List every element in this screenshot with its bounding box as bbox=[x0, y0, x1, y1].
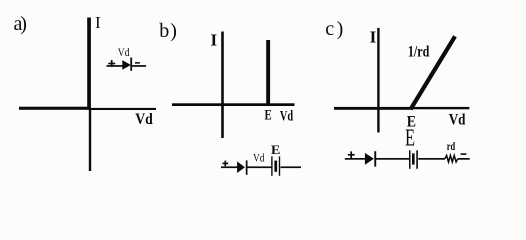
axis: I axis vertical line (part c) bbox=[377, 28, 379, 133]
battery E (part c circuit): right plate bbox=[416, 150, 418, 169]
battery E (part b circuit): middle thick plate bbox=[274, 161, 277, 172]
svg-text:E: E bbox=[405, 126, 415, 152]
svg-text:E: E bbox=[265, 108, 272, 124]
diode D (part b circuit): anode triangle bbox=[237, 161, 245, 173]
axis: negative I axis (part a) bbox=[89, 109, 91, 171]
diode D (part b circuit): cathode bar bbox=[246, 160, 248, 174]
wire: cathode lead of diode Vd (part a) bbox=[132, 65, 146, 67]
svg-text:1/rd: 1/rd bbox=[408, 44, 429, 61]
svg-text:c): c) bbox=[325, 18, 343, 40]
characteristic/axis: thick horizontal segment left of E (part c) bbox=[334, 107, 412, 110]
axis: positive Vd axis (part a) bbox=[91, 108, 156, 110]
characteristic: slope 1/rd line (part c) bbox=[411, 36, 456, 109]
ideal diode characteristic: thick horizontal segment I=0 for Vd&lt;0 (part a) bbox=[19, 107, 91, 110]
minus terminal (part c circuit) bbox=[461, 153, 467, 155]
svg-text:Vd: Vd bbox=[118, 47, 130, 59]
plus terminal (part c circuit) bbox=[348, 151, 355, 158]
svg-text:Vd: Vd bbox=[449, 111, 466, 128]
wire: battery to right end (part b circuit) bbox=[281, 166, 301, 168]
svg-text:rd: rd bbox=[447, 141, 456, 153]
svg-text:I: I bbox=[370, 27, 377, 46]
battery E (part b circuit): right plate bbox=[279, 156, 280, 175]
svg-text:I: I bbox=[95, 13, 101, 32]
plus terminal (part a) bbox=[108, 60, 115, 67]
svg-text:Vd: Vd bbox=[253, 151, 265, 165]
wire: battery to resistor (part c circuit) bbox=[418, 158, 445, 160]
svg-text:E: E bbox=[271, 142, 280, 157]
ideal diode characteristic: thick vertical segment on I axis (part a) bbox=[87, 18, 91, 110]
axis: Vd axis right segment (part c) bbox=[412, 107, 470, 109]
svg-text:a): a) bbox=[14, 13, 27, 35]
diode D (part c circuit): anode triangle bbox=[365, 153, 374, 165]
battery E (part c circuit): middle thick plate bbox=[412, 153, 415, 164]
svg-text:Vd: Vd bbox=[280, 108, 294, 124]
axis: Vd horizontal axis (part b) bbox=[172, 103, 295, 106]
diode D (part a): anode triangle bbox=[122, 60, 131, 70]
battery E (part c circuit): left plate bbox=[409, 150, 411, 169]
axis: I axis vertical line (part b) bbox=[221, 32, 224, 139]
wire: left lead from plus to diode (part b circuit) bbox=[221, 166, 237, 168]
piecewise characteristic: thick vertical line at Vd=E (part b) bbox=[266, 40, 270, 106]
diode D (part a): cathode bar bbox=[130, 58, 132, 71]
wire: left lead from plus to diode (part c circuit) bbox=[345, 158, 366, 160]
wire: resistor to right end (part c circuit) bbox=[458, 158, 470, 160]
wire: diode cathode to battery (part b circuit) bbox=[247, 166, 271, 168]
wire: diode cathode to battery (part c circuit) bbox=[376, 158, 409, 160]
svg-text:b): b) bbox=[159, 20, 177, 42]
battery E (part b circuit): left plate bbox=[271, 156, 272, 175]
svg-text:I: I bbox=[211, 30, 218, 49]
wire: anode lead of diode Vd (part a) bbox=[107, 65, 123, 67]
resistor rd (part c circuit): zigzag body bbox=[445, 155, 458, 162]
svg-text:Vd: Vd bbox=[135, 111, 153, 128]
minus terminal (part a) bbox=[135, 62, 140, 64]
diode D (part c circuit): cathode bar bbox=[374, 151, 376, 166]
plus terminal (part b circuit) bbox=[223, 161, 229, 167]
